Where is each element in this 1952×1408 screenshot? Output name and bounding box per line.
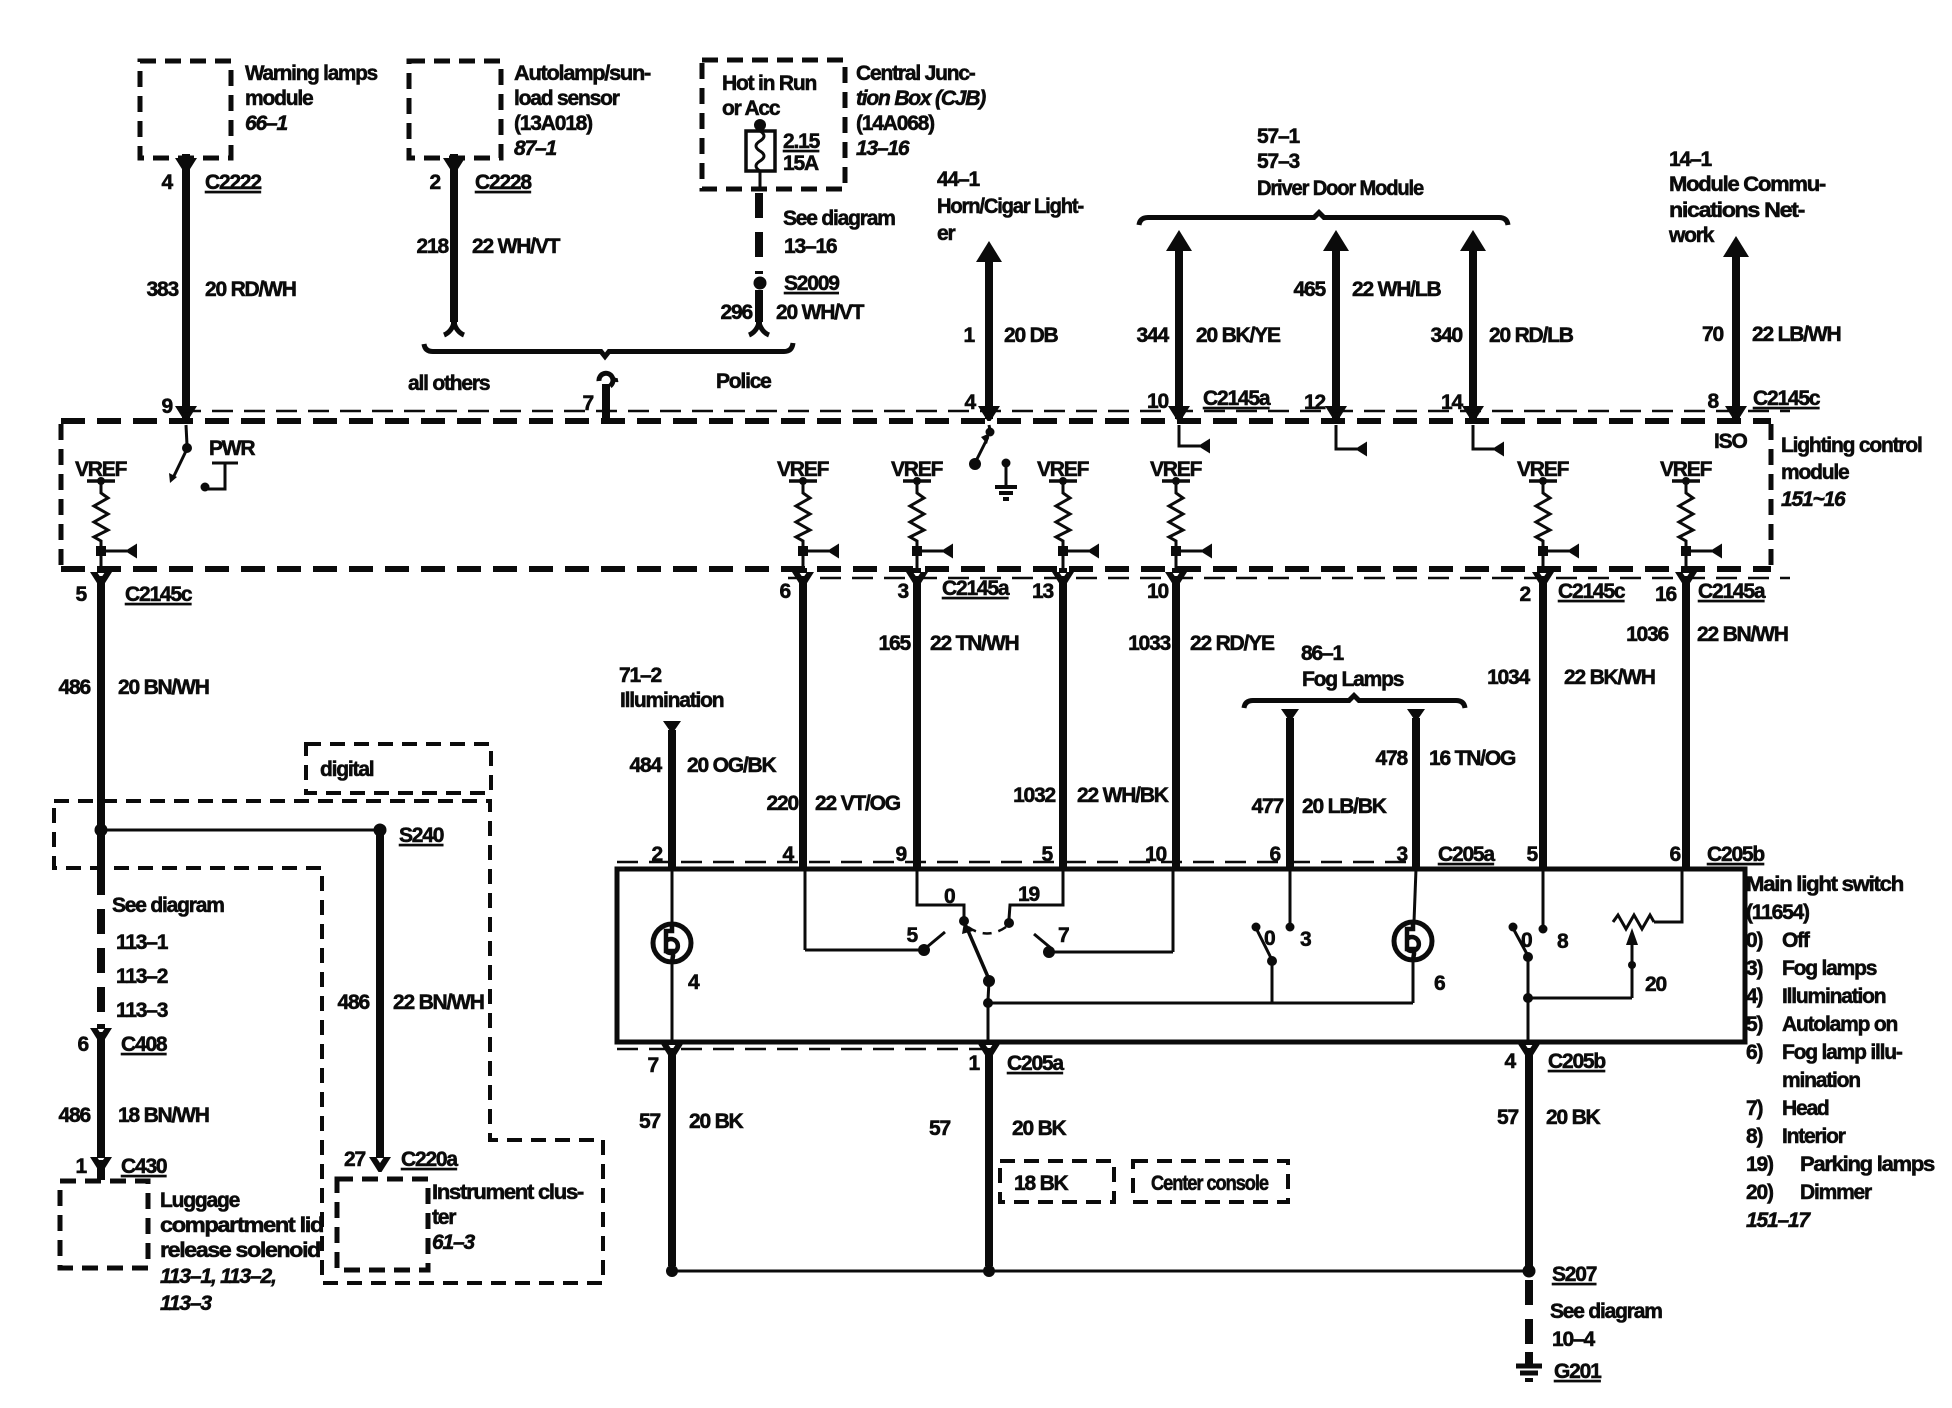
note box: Center console [1133, 1161, 1288, 1202]
svg-text:57: 57 [639, 1110, 660, 1133]
note box: 18 BK [1000, 1161, 1114, 1202]
svg-text:20 LB/BK: 20 LB/BK [1302, 795, 1387, 818]
svg-text:module: module [245, 87, 313, 110]
svg-text:Hot in Run: Hot in Run [722, 72, 817, 95]
svg-text:Fog lamp illu-: Fog lamp illu- [1782, 1041, 1903, 1064]
svg-text:Head: Head [1782, 1097, 1829, 1120]
svg-text:C2145a: C2145a [942, 577, 1010, 600]
wire pin 2 / 1034 22 BK/WH [1532, 568, 1554, 587]
svg-text:113–1, 113–2,: 113–1, 113–2, [160, 1265, 276, 1288]
wire 340 20 RD/LB [1460, 230, 1486, 251]
svg-text:S240: S240 [399, 824, 444, 847]
svg-text:Fog Lamps: Fog Lamps [1302, 668, 1404, 691]
svg-text:113–3: 113–3 [160, 1292, 212, 1315]
svg-text:1036: 1036 [1626, 623, 1668, 646]
svg-text:13–16: 13–16 [784, 235, 837, 258]
wire pin 16 / 1036 22 BN/WH [1675, 568, 1697, 587]
wire 484 20 OG/BK (illumination) [663, 721, 681, 734]
svg-text:57: 57 [929, 1117, 950, 1140]
svg-text:C205b: C205b [1548, 1050, 1605, 1073]
svg-text:486: 486 [338, 991, 370, 1014]
svg-text:20 RD/LB: 20 RD/LB [1489, 324, 1574, 347]
wire 486 22 BN/WH (to instrument cluster) [376, 834, 384, 1155]
svg-text:19: 19 [1018, 883, 1039, 906]
svg-text:113–3: 113–3 [116, 999, 168, 1022]
svg-text:296: 296 [721, 301, 753, 324]
svg-text:Main light switch: Main light switch [1746, 873, 1903, 896]
component box: Central Junction Box (CJB) [702, 60, 845, 189]
svg-text:Autolamp/sun-: Autolamp/sun- [514, 62, 651, 85]
svg-text:Police: Police [716, 370, 771, 393]
svg-text:C2145c: C2145c [1558, 580, 1626, 603]
svg-text:2: 2 [430, 171, 441, 194]
rotary switch contact 0 (from pin 9) [917, 869, 964, 917]
svg-text:20 BK: 20 BK [689, 1110, 744, 1133]
svg-text:Lighting control: Lighting control [1781, 434, 1922, 457]
rotary switch dashed arc [968, 927, 1006, 934]
wire pin 6 / 220 22 VT/OG [792, 568, 814, 587]
wire to ground (dashed) [1525, 1280, 1533, 1352]
svg-text:9: 9 [162, 395, 173, 418]
svg-text:mination: mination [1782, 1069, 1860, 1092]
svg-text:1: 1 [76, 1155, 88, 1178]
svg-text:1034: 1034 [1487, 666, 1530, 689]
svg-text:ISO: ISO [1714, 430, 1747, 453]
svg-text:218: 218 [417, 235, 450, 258]
svg-text:66–1: 66–1 [245, 112, 287, 135]
svg-text:Center console: Center console [1151, 1172, 1268, 1195]
svg-text:digital: digital [320, 758, 374, 781]
svg-text:5: 5 [76, 583, 88, 606]
svg-text:4): 4) [1746, 985, 1762, 1008]
connector C205a pin 1 / wire 57 20 BK (middle) [978, 1040, 1000, 1059]
internal stub at pin 14 (wire 340) [1473, 425, 1494, 449]
svg-text:Luggage: Luggage [160, 1189, 240, 1212]
svg-text:Dimmer: Dimmer [1800, 1181, 1872, 1204]
svg-text:nications Net-: nications Net- [1669, 199, 1805, 222]
svg-text:4: 4 [162, 171, 174, 194]
svg-text:18 BN/WH: 18 BN/WH [118, 1104, 209, 1127]
svg-text:465: 465 [1294, 278, 1327, 301]
svg-text:module: module [1781, 461, 1849, 484]
svg-text:Central Junc-: Central Junc- [856, 62, 976, 85]
svg-text:71–2: 71–2 [619, 664, 661, 687]
svg-text:20 OG/BK: 20 OG/BK [687, 754, 776, 777]
svg-text:87–1: 87–1 [514, 137, 556, 160]
svg-text:Horn/Cigar Light-: Horn/Cigar Light- [937, 195, 1084, 218]
component box: Luggage compartment lid release solenoid [60, 1181, 148, 1268]
ground bus wire [666, 1265, 678, 1277]
svg-text:57–3: 57–3 [1257, 150, 1299, 173]
wire 1 20 DB (horn) [976, 241, 1002, 262]
connector C2145c pin 5 / wire 486 20 BN/WH [90, 568, 112, 587]
svg-text:19): 19) [1746, 1153, 1773, 1176]
svg-text:Instrument clus-: Instrument clus- [432, 1181, 584, 1204]
svg-text:See diagram: See diagram [783, 207, 895, 230]
wire 486 18 BN/WH [97, 1032, 105, 1155]
svg-text:6): 6) [1746, 1041, 1762, 1064]
svg-text:151–17: 151–17 [1746, 1209, 1811, 1232]
lamp (illumination) in switch [671, 869, 674, 924]
wire 478 16 TN/OG [1407, 709, 1425, 722]
wire fog output line inside switch [988, 1002, 1413, 1005]
svg-text:6: 6 [1670, 843, 1681, 866]
svg-text:8): 8) [1746, 1125, 1762, 1148]
svg-text:8: 8 [1708, 390, 1720, 413]
wire from contact 7 to pin 10 [1034, 934, 1052, 949]
svg-text:151~16: 151~16 [1781, 488, 1846, 511]
svg-text:22 BN/WH: 22 BN/WH [1697, 623, 1788, 646]
VREF resistor (pin 6) [777, 458, 839, 571]
svg-text:27: 27 [344, 1148, 365, 1171]
svg-text:165: 165 [879, 632, 912, 655]
svg-text:9: 9 [896, 843, 907, 866]
svg-text:7: 7 [648, 1054, 659, 1077]
svg-text:C205a: C205a [1007, 1052, 1064, 1075]
svg-text:C2145a: C2145a [1698, 580, 1766, 603]
svg-text:Autolamp on: Autolamp on [1782, 1013, 1897, 1036]
contact 7 (head) [1043, 946, 1055, 958]
svg-text:22 RD/YE: 22 RD/YE [1190, 632, 1275, 655]
svg-text:3: 3 [1300, 928, 1311, 951]
fog illumination lamp [1414, 869, 1416, 922]
svg-text:(14A068): (14A068) [856, 112, 934, 135]
switch lever from pin 9 (internal) [186, 425, 187, 445]
svg-text:113–2: 113–2 [116, 965, 168, 988]
svg-text:or Acc: or Acc [722, 97, 781, 120]
svg-text:See diagram: See diagram [112, 894, 224, 917]
wire 344 20 BK/YE [1166, 230, 1192, 251]
svg-text:20 BK: 20 BK [1012, 1117, 1067, 1140]
component box: Warning lamps module [140, 61, 231, 158]
svg-text:57–1: 57–1 [1257, 125, 1300, 148]
svg-text:1033: 1033 [1128, 632, 1170, 655]
svg-text:344: 344 [1137, 324, 1170, 347]
svg-text:6: 6 [78, 1033, 89, 1056]
svg-text:10–4: 10–4 [1552, 1328, 1595, 1351]
svg-text:C2145a: C2145a [1203, 387, 1271, 410]
svg-text:220: 220 [767, 792, 799, 815]
ground G201 [1525, 1352, 1533, 1364]
svg-text:22 TN/WH: 22 TN/WH [930, 632, 1018, 655]
svg-text:0: 0 [944, 885, 955, 908]
svg-text:383: 383 [147, 278, 179, 301]
svg-text:C430: C430 [121, 1155, 167, 1178]
svg-text:20 BK: 20 BK [1546, 1106, 1601, 1129]
svg-text:57: 57 [1497, 1106, 1518, 1129]
svg-text:113–1: 113–1 [116, 931, 169, 954]
svg-text:3: 3 [898, 580, 909, 603]
svg-text:22 VT/OG: 22 VT/OG [815, 792, 901, 815]
wire 296 20 WH/VT (dashed) [755, 193, 763, 274]
svg-text:3): 3) [1746, 957, 1762, 980]
svg-text:See diagram: See diagram [1550, 1300, 1662, 1323]
svg-text:er: er [937, 222, 955, 245]
svg-text:tion Box (CJB): tion Box (CJB) [856, 87, 986, 110]
internal stub at pin 12 (wire 465) [1336, 425, 1357, 449]
svg-text:22 WH/BK: 22 WH/BK [1077, 784, 1169, 807]
svg-text:Driver Door Module: Driver Door Module [1257, 177, 1423, 200]
svg-text:10: 10 [1147, 580, 1168, 603]
rotary wiper lever [966, 926, 988, 977]
svg-text:release solenoid: release solenoid [160, 1239, 320, 1262]
svg-text:2: 2 [1520, 583, 1531, 606]
svg-text:Off: Off [1782, 929, 1811, 952]
fog switch 0/3 [1289, 869, 1292, 923]
contact 5 (autolamp) [805, 949, 919, 952]
VREF resistor (pin 3) [891, 458, 953, 571]
svg-text:484: 484 [630, 754, 663, 777]
svg-text:Illumination: Illumination [620, 689, 724, 712]
horn input switch (internal) [989, 425, 990, 430]
component box: Instrument cluster [337, 1179, 428, 1270]
wire 383 20 RD/WH [182, 155, 190, 419]
interior switch 0/8 [1542, 869, 1545, 925]
svg-text:C408: C408 [121, 1033, 168, 1056]
svg-text:20: 20 [1645, 973, 1666, 996]
brace: Driver Door Module [1139, 213, 1508, 226]
svg-text:all others: all others [408, 372, 490, 395]
wire pin 13 / 1032 22 WH/BK [1052, 568, 1074, 587]
svg-text:C2145c: C2145c [1753, 387, 1821, 410]
svg-text:S207: S207 [1552, 1263, 1597, 1286]
dashed enclosure (instrument cluster harness) [54, 801, 603, 1283]
svg-text:(11654): (11654) [1746, 901, 1809, 924]
svg-text:work: work [1668, 224, 1715, 247]
svg-text:1: 1 [969, 1052, 981, 1075]
svg-text:0): 0) [1746, 929, 1762, 952]
brace: Fog Lamps [1244, 696, 1465, 709]
connector C2228 pin 2 [443, 154, 465, 173]
svg-text:Fog lamps: Fog lamps [1782, 957, 1877, 980]
svg-text:18 BK: 18 BK [1014, 1172, 1069, 1195]
svg-text:8: 8 [1557, 930, 1569, 953]
svg-text:22 WH/VT: 22 WH/VT [472, 235, 561, 258]
wire pin 3 / 165 22 TN/WH [906, 568, 928, 587]
dimmer rheostat R [1613, 915, 1654, 929]
wire interior switch to rheostat wiper [1528, 997, 1632, 1000]
svg-text:Interior: Interior [1782, 1125, 1846, 1148]
svg-text:Module Commu-: Module Commu- [1669, 173, 1826, 196]
svg-text:61–3: 61–3 [432, 1231, 475, 1254]
svg-text:C2222: C2222 [205, 171, 261, 194]
svg-text:Warning lamps: Warning lamps [245, 62, 378, 85]
svg-text:ter: ter [432, 1206, 456, 1229]
digital box [306, 744, 491, 793]
svg-text:1: 1 [964, 324, 976, 347]
VREF resistor (pin 13) [1037, 458, 1099, 571]
main light switch box [617, 861, 1420, 864]
svg-text:13: 13 [1032, 580, 1053, 603]
svg-text:20 BN/WH: 20 BN/WH [118, 676, 209, 699]
svg-text:16 TN/OG: 16 TN/OG [1429, 747, 1516, 770]
wire from pin 4 to autolamp contact [804, 869, 807, 950]
ground (internal, horn switch) [1002, 459, 1011, 468]
pigtail wire pin 7 [599, 373, 613, 386]
svg-text:Illumination: Illumination [1782, 985, 1886, 1008]
wire 477 20 LB/BK [1281, 709, 1299, 722]
svg-text:340: 340 [1431, 324, 1463, 347]
svg-text:5: 5 [907, 924, 919, 947]
svg-text:478: 478 [1376, 747, 1409, 770]
svg-text:22 WH/LB: 22 WH/LB [1352, 278, 1441, 301]
svg-text:C205a: C205a [1438, 843, 1495, 866]
svg-text:477: 477 [1252, 795, 1284, 818]
splice S240 [95, 824, 108, 837]
svg-text:486: 486 [59, 676, 91, 699]
wire rheostat to pin 6 C205b [1654, 869, 1682, 922]
svg-text:6: 6 [1434, 972, 1445, 995]
bus brace: all others / Police [424, 343, 793, 357]
svg-text:486: 486 [59, 1104, 91, 1127]
svg-text:10: 10 [1147, 390, 1168, 413]
wire 465 22 WH/LB [1323, 230, 1349, 251]
wire pin 10 / 1033 22 RD/YE [1165, 568, 1187, 587]
svg-text:70: 70 [1702, 323, 1723, 346]
svg-text:22 BN/WH: 22 BN/WH [393, 991, 484, 1014]
wire rotary wiper to pin 1 [987, 1003, 990, 1042]
VREF resistor (pin 5) [75, 458, 137, 571]
rheostat wiper arrow [1631, 942, 1634, 998]
svg-text:4: 4 [688, 971, 700, 994]
svg-text:22 BK/WH: 22 BK/WH [1564, 666, 1655, 689]
connector C205b pin 4 / wire 57 20 BK (right) [1518, 1040, 1540, 1059]
svg-text:PWR: PWR [209, 437, 255, 460]
svg-text:2.15: 2.15 [783, 130, 821, 153]
svg-text:C2145c: C2145c [125, 583, 193, 606]
svg-text:14–1: 14–1 [1669, 148, 1712, 171]
svg-text:S2009: S2009 [784, 272, 839, 295]
svg-text:7): 7) [1746, 1097, 1762, 1120]
svg-text:(13A018): (13A018) [514, 112, 592, 135]
svg-text:C220a: C220a [401, 1148, 458, 1171]
svg-text:16: 16 [1655, 583, 1676, 606]
svg-text:22 LB/WH: 22 LB/WH [1752, 323, 1840, 346]
svg-text:C205b: C205b [1707, 843, 1764, 866]
connector C220a pin 27 [369, 1153, 391, 1172]
svg-text:20 RD/WH: 20 RD/WH [205, 278, 296, 301]
VREF resistor (pin 10) [1150, 458, 1212, 571]
fuse 2.15 15A [754, 119, 766, 131]
splice S2009 [754, 277, 767, 290]
wire 486 (dashed to C408) [97, 870, 105, 1026]
svg-text:7: 7 [1058, 924, 1069, 947]
splice S207 [1523, 1265, 1536, 1278]
VREF resistor (pin 16) [1660, 458, 1722, 571]
svg-text:86–1: 86–1 [1301, 642, 1344, 665]
svg-text:4: 4 [1505, 1050, 1517, 1073]
connector C2222 pin 4 [175, 154, 197, 173]
svg-text:5): 5) [1746, 1013, 1762, 1036]
svg-text:5: 5 [1527, 843, 1539, 866]
connector C430 pin 1 [90, 1153, 112, 1172]
svg-text:load sensor: load sensor [514, 87, 620, 110]
svg-text:20 DB: 20 DB [1004, 324, 1059, 347]
svg-text:20 BK/YE: 20 BK/YE [1196, 324, 1281, 347]
VREF resistor (pin 2) [1517, 458, 1579, 571]
connector C408 pin 6 [90, 1024, 112, 1043]
svg-text:1032: 1032 [1013, 784, 1055, 807]
svg-text:Parking lamps: Parking lamps [1800, 1153, 1935, 1176]
svg-text:6: 6 [780, 580, 791, 603]
wire 57 20 BK (pin 7, left) [661, 1040, 683, 1059]
internal stub at pin 10 (wire 344) [1179, 425, 1200, 446]
svg-text:G201: G201 [1554, 1360, 1602, 1383]
svg-text:20 WH/VT: 20 WH/VT [776, 301, 865, 324]
wire 218 22 WH/VT [450, 155, 458, 322]
svg-text:44–1: 44–1 [937, 168, 980, 191]
wire 70 22 LB/WH [1723, 236, 1749, 257]
svg-text:20): 20) [1746, 1181, 1773, 1204]
svg-text:C2228: C2228 [475, 171, 532, 194]
rotary switch contact 19 (from pin 5) [1009, 869, 1063, 919]
svg-text:15A: 15A [783, 152, 819, 175]
lighting control module box (dashed) [180, 410, 1790, 413]
svg-text:compartment lid: compartment lid [160, 1214, 323, 1237]
svg-text:13–16: 13–16 [856, 137, 910, 160]
component box: Autolamp/sun-load sensor [409, 61, 501, 158]
